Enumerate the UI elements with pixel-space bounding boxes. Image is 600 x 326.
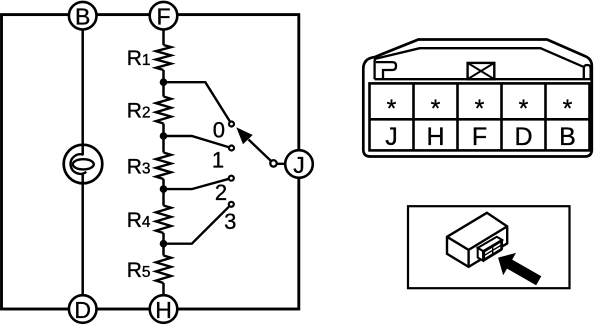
switch contact 2 circle <box>229 176 234 181</box>
svg-text:B: B <box>75 4 90 30</box>
connector hood inner line left <box>375 48 584 79</box>
connector key step left <box>376 62 396 79</box>
switch arm arrowhead <box>236 127 252 144</box>
svg-text:*: * <box>519 95 529 123</box>
wire tap R2-R3 junction to contact 1 <box>164 136 232 148</box>
resistor R2 <box>156 97 171 124</box>
svg-text:D: D <box>514 123 532 151</box>
wire lamp branch lower <box>81 173 84 309</box>
svg-text:R3: R3 <box>127 155 151 178</box>
switch pivot contact circle <box>270 160 276 166</box>
junction node dot 4 <box>160 240 168 248</box>
node B terminal circle <box>69 2 97 30</box>
resistor R1 <box>156 45 171 70</box>
svg-text:J: J <box>385 123 398 151</box>
svg-text:H: H <box>155 297 172 323</box>
relay connector left face <box>478 248 483 261</box>
svg-text:*: * <box>475 95 485 123</box>
svg-text:*: * <box>431 95 441 123</box>
wire outer circuit loop <box>2 15 299 309</box>
node J terminal circle <box>285 150 313 178</box>
connector pin grid outline <box>370 83 590 150</box>
svg-text:R2: R2 <box>127 100 151 123</box>
junction node dot 1 <box>160 78 168 86</box>
connector hood bottom edge line <box>375 78 591 80</box>
svg-text:2: 2 <box>215 180 227 205</box>
svg-text:*: * <box>387 95 397 123</box>
junction node dot 3 <box>160 185 168 193</box>
connector pin grid inner lines <box>370 83 590 150</box>
junction node dot 2 <box>160 132 168 140</box>
svg-text:0: 0 <box>213 117 225 142</box>
svg-text:R4: R4 <box>127 209 151 232</box>
wire switch pivot to node J <box>274 163 288 165</box>
connector latch tab right <box>584 65 591 79</box>
svg-text:F: F <box>156 4 170 30</box>
switch contact 1 circle <box>229 146 234 151</box>
wire tap R4-R5 junction to contact 3 <box>164 204 232 243</box>
switch contact 0 circle <box>229 122 234 127</box>
svg-text:B: B <box>559 123 576 151</box>
resistor R5 <box>156 256 171 284</box>
lamp E1 filament ellipse <box>73 159 94 169</box>
connector U1 outer housing outline <box>363 40 592 157</box>
wire resistor chain axis <box>162 29 165 296</box>
svg-text:J: J <box>293 152 305 178</box>
lamp E1 filament loop arc <box>71 154 87 174</box>
svg-text:R5: R5 <box>127 259 151 282</box>
node F terminal circle <box>150 2 178 30</box>
resistor R4 <box>156 206 171 234</box>
node H terminal circle <box>150 295 178 323</box>
connector latch box with X <box>468 63 495 79</box>
svg-text:F: F <box>472 123 487 151</box>
relay connector front face with pin cells <box>483 240 502 261</box>
wire tap R1-R2 junction to contact 0 <box>164 82 232 124</box>
resistor R3 <box>156 153 171 180</box>
wire lamp branch upper <box>81 15 84 155</box>
wire tap R3-R4 junction to contact 2 <box>164 178 232 189</box>
svg-text:1: 1 <box>212 148 224 173</box>
lamp E1 outer circle <box>64 145 103 184</box>
lamp E1 lead bottom <box>81 173 84 183</box>
svg-text:R1: R1 <box>127 47 151 70</box>
connector latch box X diagonals <box>468 63 495 79</box>
switch contact 3 circle <box>229 202 234 207</box>
relay location box border <box>408 206 570 288</box>
relay body 3D outline <box>447 213 507 267</box>
relay connector top face <box>478 237 503 251</box>
switch arm wire <box>249 140 274 164</box>
svg-text:D: D <box>74 297 91 323</box>
svg-text:*: * <box>563 95 573 123</box>
lamp E1 lead top <box>81 145 84 155</box>
svg-text:3: 3 <box>224 209 236 234</box>
node D terminal circle <box>69 295 97 323</box>
svg-text:H: H <box>426 123 444 151</box>
relay pointer arrow <box>498 253 541 285</box>
relay body internal edges <box>447 226 507 267</box>
